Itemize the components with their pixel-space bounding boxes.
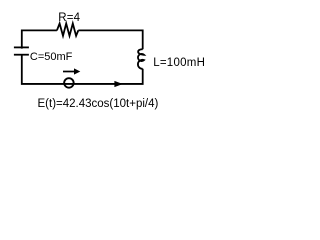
small arrow above source [63, 71, 75, 73]
resistor R zigzag [57, 24, 78, 36]
small arrowhead above source [74, 68, 80, 74]
svg-text:C=50mF: C=50mF [30, 51, 73, 63]
svg-text:E(t)=42.43cos(10t+pi/4): E(t)=42.43cos(10t+pi/4) [38, 98, 159, 110]
wire left-upper and top-left segment [22, 30, 57, 48]
wire right-lower, bottom, left-lower segments [22, 55, 143, 84]
current direction arrowhead on bottom wire [114, 81, 122, 87]
source circle E [64, 78, 74, 88]
capacitor C top plate [14, 46, 29, 48]
inductor L coil [138, 49, 144, 69]
svg-text:L=100mH: L=100mH [153, 57, 205, 69]
wire top-right segment [78, 30, 142, 49]
capacitor C bottom plate [14, 54, 29, 56]
svg-text:R=4: R=4 [58, 12, 80, 24]
